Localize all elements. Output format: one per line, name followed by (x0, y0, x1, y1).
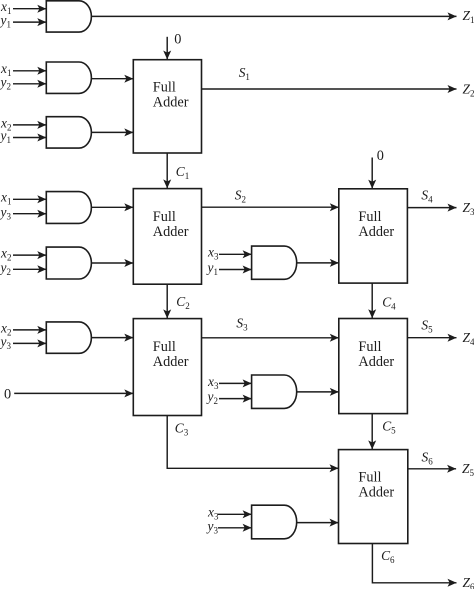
svg-text:S5: S5 (421, 317, 433, 334)
wire constant 0 into full adder U3 (14, 392, 133, 394)
wire A4 output into full adder U2 (91, 206, 133, 208)
wire x1 into AND gate A2 (13, 70, 46, 72)
svg-text:Adder: Adder (153, 95, 189, 111)
svg-text:C3: C3 (175, 420, 189, 437)
wire A9 output into full adder U6 (297, 522, 339, 524)
wire y3 into AND gate A4 (13, 213, 46, 215)
wire S1 from U1 to Z2 (202, 88, 457, 90)
wire x2 into AND gate A5 (13, 254, 46, 256)
AND gate A5 (x2*y2) (46, 247, 91, 279)
wire A1 output to Z1 (91, 15, 456, 17)
svg-text:S3: S3 (236, 315, 248, 332)
svg-text:Z6: Z6 (463, 575, 474, 589)
svg-text:Full: Full (358, 339, 381, 355)
svg-text:C5: C5 (382, 418, 396, 435)
full adder U1 (133, 60, 201, 153)
svg-text:Z5: Z5 (462, 461, 474, 478)
wire y1 into AND gate A3 (13, 137, 46, 139)
wire S3 from U3 into full adder U5 (202, 337, 339, 339)
svg-text:y1: y1 (206, 260, 218, 277)
wire x1 into AND gate A4 (13, 198, 46, 200)
wire y2 into AND gate A2 (13, 83, 46, 85)
svg-text:Full: Full (153, 339, 176, 355)
wire A2 output into full adder U1 (91, 78, 133, 80)
wire x1 into AND gate A1 (13, 8, 46, 10)
wire y2 into AND gate A8 (219, 398, 252, 400)
full adder U4 (339, 189, 408, 283)
full adder U3 (133, 319, 201, 416)
full adder U5 (339, 319, 408, 414)
wire C2 from U2 bottom into full adder U3 (166, 284, 168, 318)
wire x2 into AND gate A3 (13, 124, 46, 126)
svg-text:y3: y3 (0, 204, 11, 221)
wire A3 output into full adder U1 (91, 131, 133, 133)
wire A7 output into full adder U4 (297, 262, 339, 264)
svg-text:C1: C1 (176, 164, 189, 181)
wire C3 from U3 bottom routed into full adder U6 (167, 416, 338, 469)
AND gate A1 (x1*y1) (46, 1, 91, 32)
wire S2 from U2 into full adder U4 (202, 206, 339, 208)
wire S4 from U4 to Z3 (407, 207, 456, 209)
wire S5 from U5 to Z4 (407, 337, 456, 339)
AND gate A8 (x3*y2) (252, 375, 297, 408)
AND gate A2 (x1*y2) (46, 62, 91, 93)
full adder U6 (339, 450, 408, 544)
svg-text:Adder: Adder (153, 354, 189, 370)
svg-text:C6: C6 (381, 548, 395, 565)
wire C1 from U1 bottom into full adder U2 (166, 153, 168, 188)
svg-text:Full: Full (358, 209, 381, 225)
wire constant 0 into top of full adder U4 (371, 158, 373, 189)
svg-text:Adder: Adder (153, 224, 189, 240)
svg-text:Z3: Z3 (463, 200, 474, 217)
wire y2 into AND gate A5 (13, 268, 46, 270)
svg-text:Adder: Adder (358, 354, 394, 370)
wire x3 into AND gate A9 (218, 513, 252, 515)
wire y3 into AND gate A6 (13, 342, 46, 344)
svg-text:0: 0 (377, 148, 384, 164)
svg-text:S6: S6 (422, 450, 434, 467)
svg-text:Full: Full (153, 80, 176, 96)
svg-text:Full: Full (358, 470, 381, 486)
svg-text:S2: S2 (235, 188, 246, 205)
AND gate A4 (x1*y3) (46, 192, 91, 224)
wire S6 from U6 to Z5 (408, 468, 456, 470)
AND gate A9 (x3*y3) (252, 505, 297, 539)
wire C6 from U6 bottom routed to Z6 (372, 544, 456, 583)
wire y3 into AND gate A9 (218, 527, 252, 529)
wire C4 from U4 bottom into full adder U5 (371, 283, 373, 318)
svg-text:Z2: Z2 (463, 81, 474, 98)
full adder U2 (133, 189, 201, 285)
wire x3 into AND gate A7 (219, 253, 252, 255)
wire x3 into AND gate A8 (219, 382, 252, 384)
svg-text:C4: C4 (382, 295, 396, 312)
svg-text:C2: C2 (176, 294, 189, 311)
wire constant 0 into top of full adder U1 (166, 37, 168, 60)
svg-text:S1: S1 (239, 65, 250, 82)
svg-text:Z1: Z1 (463, 8, 474, 25)
wire A6 output into full adder U3 (91, 337, 133, 339)
svg-text:Z4: Z4 (463, 330, 474, 347)
wire y1 into AND gate A7 (219, 269, 252, 271)
svg-text:0: 0 (4, 387, 11, 403)
AND gate A3 (x2*y1) (46, 117, 91, 148)
wire y1 into AND gate A1 (13, 21, 46, 23)
svg-text:S4: S4 (421, 188, 433, 205)
svg-text:0: 0 (174, 31, 181, 47)
wire A8 output into full adder U5 (297, 391, 339, 393)
wire C5 from U5 bottom into full adder U6 (371, 414, 373, 450)
AND gate A7 (x3*y1) (252, 246, 297, 279)
AND gate A6 (x2*y3) (46, 322, 91, 353)
svg-text:Adder: Adder (358, 224, 394, 240)
svg-text:y2: y2 (206, 389, 218, 406)
svg-text:Full: Full (153, 209, 176, 225)
svg-text:Adder: Adder (358, 485, 394, 501)
wire x2 into AND gate A6 (13, 329, 46, 331)
wire A5 output into full adder U2 (91, 262, 133, 264)
